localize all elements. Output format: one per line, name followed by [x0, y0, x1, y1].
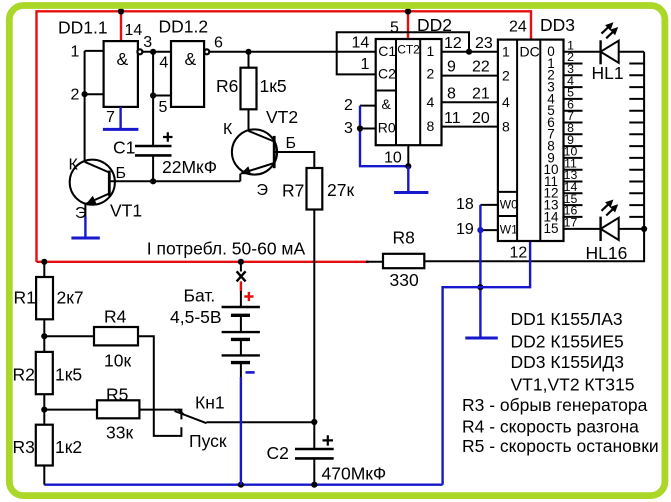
svg-text:21: 21	[472, 86, 490, 103]
resistor R5	[97, 400, 139, 418]
svg-text:5: 5	[159, 99, 168, 116]
wire DD2 out2 pin9 to DD3 in2 pin22	[442, 75, 498, 77]
node pin5 junction	[150, 92, 156, 98]
svg-text:5: 5	[390, 20, 399, 37]
wire blue battery minus to rail	[240, 377, 242, 485]
svg-text:I потребл. 50-60 мА: I потребл. 50-60 мА	[147, 239, 306, 259]
wire R8 right lead to LED bus corner	[424, 229, 644, 261]
svg-text:Э: Э	[75, 205, 87, 222]
svg-text:R3 - обрыв генератора: R3 - обрыв генератора	[462, 395, 648, 415]
svg-text:4: 4	[427, 94, 435, 110]
wire C2 bottom lead to rail	[313, 458, 315, 484]
wire red DD2 pin5 drop	[407, 11, 409, 39]
wire R2-R3 link	[43, 394, 45, 425]
svg-text:2к7: 2к7	[57, 288, 84, 308]
node pin3 junction	[150, 49, 156, 55]
wire DD1.1 input1	[85, 50, 104, 52]
wire R4 left lead	[44, 335, 94, 337]
svg-text:&: &	[117, 49, 129, 69]
svg-text:DD2 К155ИЕ5: DD2 К155ИЕ5	[511, 332, 624, 352]
svg-text:11: 11	[444, 110, 461, 127]
svg-text:4,5-5В: 4,5-5В	[170, 307, 222, 327]
node HL16 bus junction	[641, 226, 647, 232]
svg-text:C1: C1	[113, 138, 135, 158]
ground VT1 emitter	[71, 217, 99, 239]
wire blue DD2 R0 tie	[360, 106, 408, 167]
svg-text:W1: W1	[500, 222, 518, 236]
svg-text:10к: 10к	[104, 351, 131, 371]
svg-text:DD2: DD2	[417, 15, 452, 35]
wire blue DD3 pin12	[480, 241, 530, 287]
svg-text:4: 4	[502, 94, 510, 110]
svg-text:C1: C1	[378, 43, 396, 59]
label DD3 pin numbers 1-17	[564, 38, 578, 229]
node blue net junction	[477, 284, 483, 290]
wire HL1 row anode/cathode leads	[564, 51, 645, 53]
wire DD1.1 inputs vertical to VT1 collector	[84, 51, 86, 162]
wire DD1.2 input pin5	[153, 95, 171, 97]
node top rail pin14 junction	[118, 8, 124, 14]
wire DD2 out4 pin8 to DD3 in4 pin21	[442, 101, 498, 103]
wire red DD1 pin14 drop	[120, 11, 122, 41]
battery plus sign red	[244, 292, 253, 301]
resistor R8	[383, 254, 424, 268]
svg-text:1: 1	[361, 56, 370, 73]
wire R7 bottom vertical to C2 node	[313, 210, 315, 450]
wire R1 top lead	[43, 262, 45, 277]
svg-text:27к: 27к	[327, 180, 354, 200]
ground DD1 pin7	[103, 107, 138, 129]
node R7 Kn1 C2 junction	[311, 419, 317, 425]
svg-text:R3: R3	[13, 437, 35, 457]
node feedback junction	[466, 49, 472, 55]
wire blue to bottom rail	[443, 287, 481, 485]
wire R5 left lead	[44, 409, 97, 411]
wire C1 bottom to VT1 base node	[152, 155, 154, 181]
svg-text:14: 14	[125, 22, 143, 39]
svg-text:DD1 К155ЛА3: DD1 К155ЛА3	[511, 309, 623, 329]
node DD2 ground junction	[405, 163, 411, 169]
svg-text:22МкФ: 22МкФ	[162, 157, 217, 177]
svg-text:Б: Б	[286, 135, 297, 152]
svg-text:2: 2	[427, 66, 435, 82]
node DD1.1 input2 junction	[82, 91, 88, 97]
IC DD3 K155ID3 decoder	[498, 40, 564, 241]
node rail C2 junction	[311, 482, 317, 488]
wire R5 right lead	[139, 410, 181, 420]
wire LED cathode bus vertical	[643, 52, 645, 229]
resistor R1	[36, 277, 53, 319]
svg-text:12: 12	[444, 35, 462, 52]
wire HL16 row anode/cathode leads	[564, 228, 645, 230]
node red battery junction	[238, 259, 244, 265]
svg-text:R8: R8	[393, 228, 415, 248]
wire DD1.1 input2	[85, 93, 104, 95]
svg-text:HL1: HL1	[592, 63, 624, 83]
svg-text:R0: R0	[378, 120, 396, 136]
svg-text:15: 15	[543, 221, 558, 236]
pin stubs DD3 outputs	[564, 64, 583, 217]
wire DD1.1 output pin3 to DD1.2 pin4	[142, 51, 171, 53]
LED HL1	[601, 22, 619, 64]
svg-text:1: 1	[71, 44, 80, 61]
battery Bat 4.5-5V	[222, 307, 260, 377]
node VT1 base C1 junction	[150, 178, 156, 184]
wire DD1.2 output pin6 to DD2 C1 input	[210, 51, 376, 53]
svg-text:DC: DC	[520, 43, 540, 59]
battery break X mark	[237, 271, 246, 281]
wire R6 bottom lead to VT2 collector	[248, 109, 250, 131]
LED HL16	[601, 200, 619, 242]
svg-text:14: 14	[352, 35, 370, 52]
svg-text:C2: C2	[267, 443, 289, 463]
node R0 junction	[357, 125, 363, 131]
svg-text:3: 3	[344, 120, 353, 137]
wire node3 vertical to C1 top	[152, 52, 154, 146]
svg-text:Б: Б	[116, 165, 127, 182]
node W1 junction	[477, 227, 483, 233]
wire R8 left lead black	[366, 261, 383, 263]
wire red power bottom I-line	[37, 261, 370, 263]
wire DD2 out8 pin11 to DD3 in8 pin20	[442, 126, 498, 128]
svg-text:1: 1	[427, 43, 435, 59]
node top rail pin5 junction	[405, 8, 411, 14]
svg-text:R4 - скорость разгона: R4 - скорость разгона	[462, 417, 639, 437]
resistor R2	[36, 352, 53, 394]
node red R1 junction	[41, 259, 47, 265]
svg-text:20: 20	[472, 110, 490, 127]
svg-text:R6: R6	[216, 76, 238, 96]
svg-text:2: 2	[71, 87, 80, 104]
wire R1-R2 link	[43, 319, 45, 352]
svg-text:2: 2	[502, 67, 510, 83]
svg-text:R1: R1	[14, 288, 36, 308]
svg-text:VT1: VT1	[110, 201, 142, 221]
svg-text:33к: 33к	[106, 423, 133, 443]
capacitor C2	[295, 435, 334, 458]
node pin6 R6 junction	[245, 49, 251, 55]
wire feedback pin12 to C2 input pin1	[337, 32, 469, 74]
svg-text:W0: W0	[500, 197, 518, 211]
svg-text:24: 24	[509, 19, 527, 36]
battery minus sign blue	[246, 371, 255, 374]
wire VT1 base to VT2 emitter	[109, 180, 240, 182]
svg-text:Бат.: Бат.	[184, 286, 216, 306]
resistor R7	[307, 168, 323, 210]
capacitor C1	[135, 132, 173, 155]
ground DD3	[465, 337, 498, 340]
svg-text:1к5: 1к5	[55, 365, 82, 385]
resistor R4	[94, 327, 138, 345]
svg-text:1к5: 1к5	[260, 76, 287, 96]
svg-text:470МкФ: 470МкФ	[322, 464, 387, 484]
wire DD2 out1 pin12 to DD3 in1 pin23	[442, 51, 498, 53]
svg-text:Кн1: Кн1	[195, 393, 225, 413]
wire DD2 R0 input stubs pins 2,3	[360, 106, 376, 129]
svg-text:C2: C2	[378, 66, 396, 82]
svg-text:2: 2	[344, 97, 353, 114]
svg-text:DD1.2: DD1.2	[159, 17, 209, 37]
svg-text:CT2: CT2	[397, 43, 420, 57]
resistor R3	[36, 425, 53, 466]
svg-text:4: 4	[159, 55, 168, 72]
svg-text:VT2: VT2	[266, 107, 298, 127]
wire blue W0 W1 tie vertical	[479, 205, 481, 338]
svg-text:12: 12	[510, 245, 528, 262]
wire DD2 pin10 stub	[407, 145, 409, 166]
svg-text:8: 8	[502, 118, 510, 134]
wire R3 bottom lead	[43, 466, 45, 485]
node R1R2 R4 junction	[41, 333, 47, 339]
wire battery top lead	[240, 262, 242, 307]
svg-text:Э: Э	[257, 182, 269, 199]
svg-text:VT1,VT2 КТ315: VT1,VT2 КТ315	[511, 375, 635, 395]
svg-text:К: К	[69, 156, 79, 173]
svg-text:&: &	[382, 96, 392, 112]
IC DD2 K155IE5 counter	[376, 39, 442, 145]
op-amp gate DD1.1	[104, 41, 143, 107]
label DD3 output digits 0-15	[543, 44, 559, 236]
svg-text:23: 23	[475, 35, 493, 52]
wire DD3 W0 W1 stubs pins 18,19	[480, 205, 498, 230]
transistor VT1	[70, 160, 115, 217]
ground DD2 pin10	[394, 166, 428, 192]
svg-text:1: 1	[502, 44, 510, 60]
svg-text:7: 7	[106, 109, 115, 126]
wire red power rail top/left	[37, 11, 532, 262]
svg-text:R7: R7	[282, 181, 304, 201]
wire VT2 base to R7	[274, 152, 314, 168]
svg-text:8: 8	[447, 86, 456, 103]
svg-text:9: 9	[447, 59, 456, 76]
wire R6 top lead	[248, 52, 250, 68]
svg-text:&: &	[185, 49, 197, 69]
svg-text:Пуск: Пуск	[189, 431, 227, 451]
svg-text:DD1.1: DD1.1	[58, 17, 108, 37]
svg-text:1к2: 1к2	[55, 437, 82, 457]
svg-text:DD3: DD3	[540, 15, 575, 35]
wire blue bottom ground rail	[44, 484, 442, 486]
svg-text:330: 330	[390, 270, 419, 290]
svg-text:3: 3	[143, 34, 152, 51]
svg-text:19: 19	[456, 221, 474, 238]
svg-text:8: 8	[427, 118, 435, 134]
svg-text:К: К	[223, 121, 233, 138]
wire bus ticks HL2-HL15	[629, 64, 644, 217]
wire R4 right lead down to switch contact	[138, 336, 181, 436]
svg-text:DD3 К155ИД3: DD3 К155ИД3	[511, 352, 624, 372]
node rail battery junction	[238, 482, 244, 488]
svg-text:R2: R2	[13, 365, 35, 385]
op-amp gate DD1.2	[171, 41, 209, 107]
resistor R6	[241, 68, 257, 110]
wire Kn1 common to C2 node	[207, 421, 315, 423]
svg-text:R4: R4	[104, 307, 127, 327]
svg-text:R5 - скорость остановки: R5 - скорость остановки	[462, 436, 659, 456]
svg-text:R5: R5	[106, 385, 128, 405]
svg-text:10: 10	[384, 150, 402, 167]
svg-text:18: 18	[456, 196, 474, 213]
transistor VT2	[232, 129, 277, 181]
switch Kn1 arm	[175, 409, 207, 423]
node R2R3 R5 junction	[41, 407, 47, 413]
svg-text:6: 6	[214, 35, 223, 52]
svg-text:22: 22	[472, 59, 490, 76]
svg-text:HL16: HL16	[586, 243, 628, 263]
